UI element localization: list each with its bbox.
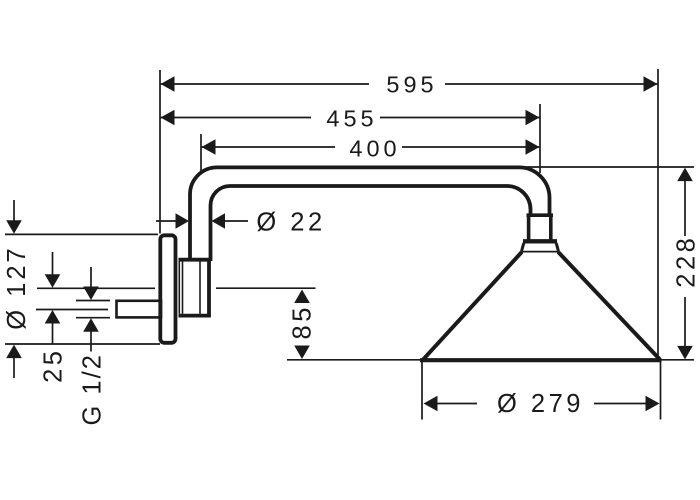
dim Ø127 shafts	[13, 200, 15, 221]
centerline plate axis	[37, 287, 155, 289]
arrowhead Ø22 right (points left)	[212, 213, 226, 229]
dim 25 shafts	[52, 252, 54, 276]
svg-text:85: 85	[289, 304, 317, 339]
dim G1/2 ticks	[76, 300, 110, 302]
dim G1/2 shafts	[90, 267, 92, 288]
arrowhead 85 bottom	[294, 346, 310, 360]
svg-text:25: 25	[40, 348, 68, 383]
nut right side	[549, 214, 553, 241]
nut top edge	[527, 213, 554, 217]
baseline spray face left	[287, 359, 420, 361]
dim 455 line	[160, 117, 311, 119]
arrowhead 400 right	[526, 139, 540, 155]
svg-text:Ø 22: Ø 22	[256, 209, 325, 237]
svg-text:228: 228	[672, 235, 700, 288]
arrowhead 85 top	[294, 290, 310, 304]
extension line wall plane	[159, 70, 161, 234]
arrowhead Ø22 left (points right)	[176, 213, 190, 229]
dim Ø279 extension lines	[421, 362, 423, 420]
flare right side	[556, 243, 558, 251]
body face line left	[178, 262, 180, 314]
shower arm outer outline	[190, 167, 550, 261]
arrowhead Ø127 top	[6, 220, 22, 234]
centerline arm axis right of body	[216, 287, 316, 289]
extension line plate bottom	[5, 343, 160, 345]
nut bottom flange bar	[523, 239, 557, 243]
extension line right edge	[657, 69, 659, 359]
svg-text:Ø 127: Ø 127	[3, 245, 31, 329]
svg-text:G 1/2: G 1/2	[78, 353, 106, 425]
arrowhead Ø127 bottom	[6, 345, 22, 359]
arrowhead G1/2 top	[83, 287, 99, 301]
wall escutcheon plate	[160, 235, 175, 342]
dim 228 line	[684, 180, 686, 236]
arrowhead 228 top	[677, 168, 693, 182]
svg-text:400: 400	[349, 136, 400, 162]
extension line plate top	[5, 233, 158, 235]
extension line head axis	[539, 104, 541, 173]
arrowhead Ø279 right	[646, 396, 660, 412]
arrowhead 400 left	[202, 139, 216, 155]
cone right slant	[558, 252, 660, 359]
body face line middle	[199, 262, 201, 314]
dim Ø22 leaders	[156, 220, 177, 222]
dim 595 line	[160, 83, 369, 85]
arrowhead 595 right	[644, 76, 658, 92]
cone spray face base	[420, 358, 662, 362]
svg-text:455: 455	[326, 106, 377, 132]
arrowhead 25 top	[45, 274, 61, 288]
body face line inner	[182, 262, 184, 314]
arrowhead 455 right	[526, 110, 540, 126]
flare left side	[522, 243, 524, 251]
arrowhead 595 left	[161, 76, 175, 92]
shower arm inner outline	[211, 186, 531, 261]
dim 400 line	[201, 146, 335, 148]
cone top edge thin	[521, 251, 558, 253]
centerline stub axis	[36, 309, 108, 311]
dim Ø279 line	[436, 403, 477, 405]
nut left side	[527, 214, 531, 241]
arrowhead 455 left	[161, 110, 175, 126]
supply stub G1/2	[117, 301, 162, 318]
arrowhead 228 bottom	[677, 346, 693, 360]
svg-text:595: 595	[386, 71, 437, 97]
extension line arm elbow axis	[200, 134, 202, 172]
baseline spray face right	[661, 359, 694, 361]
cone left slant	[423, 252, 522, 359]
svg-text:Ø 279: Ø 279	[497, 390, 584, 418]
arrowhead Ø279 left	[424, 396, 438, 412]
wall mount body	[179, 260, 210, 316]
arrowhead G1/2 bottom	[83, 318, 99, 332]
arrowhead 25 bottom	[45, 310, 61, 324]
extension line arm top level	[522, 166, 694, 168]
